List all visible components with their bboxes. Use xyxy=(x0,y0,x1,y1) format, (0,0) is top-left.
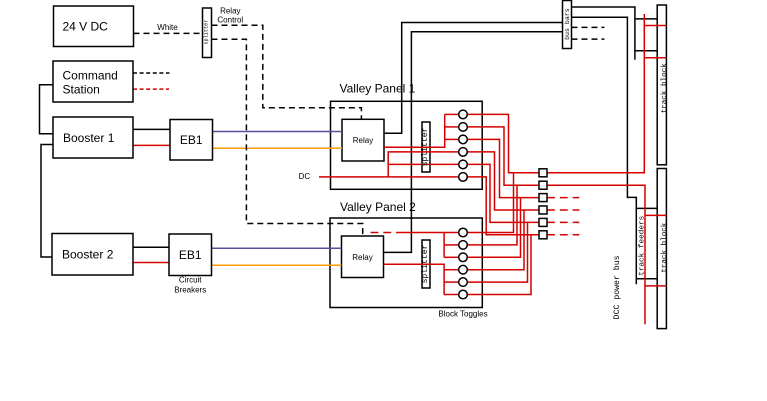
svg-text:White: White xyxy=(157,23,178,32)
svg-text:splitter: splitter xyxy=(421,244,430,283)
svg-text:Station: Station xyxy=(63,83,100,97)
svg-text:splitter: splitter xyxy=(204,20,210,45)
svg-text:splitter: splitter xyxy=(421,127,430,166)
svg-text:Circuit: Circuit xyxy=(179,276,202,285)
svg-text:track feeders: track feeders xyxy=(639,216,647,276)
svg-text:EB1: EB1 xyxy=(179,248,202,262)
svg-text:bus bars: bus bars xyxy=(564,8,571,40)
svg-text:Relay: Relay xyxy=(220,6,240,15)
svg-text:Breakers: Breakers xyxy=(174,286,206,295)
svg-text:track block: track block xyxy=(661,63,669,114)
svg-text:EB1: EB1 xyxy=(180,133,203,147)
svg-text:Valley Panel 2: Valley Panel 2 xyxy=(340,200,416,214)
svg-text:Booster 2: Booster 2 xyxy=(62,248,114,262)
svg-text:Control: Control xyxy=(217,15,243,24)
svg-text:24 V DC: 24 V DC xyxy=(63,20,109,34)
svg-text:Relay: Relay xyxy=(353,136,373,145)
svg-text:Block Toggles: Block Toggles xyxy=(438,310,487,319)
svg-text:Command: Command xyxy=(63,68,118,82)
svg-text:DCC power bus: DCC power bus xyxy=(612,255,622,319)
svg-text:Valley Panel 1: Valley Panel 1 xyxy=(340,81,416,95)
svg-text:Booster 1: Booster 1 xyxy=(63,131,115,145)
svg-text:DC: DC xyxy=(299,172,311,181)
svg-text:track block: track block xyxy=(661,222,669,273)
svg-text:Relay: Relay xyxy=(352,253,372,262)
